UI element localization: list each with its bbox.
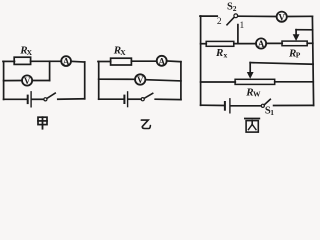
wire: yi bottom row left segment [99, 98, 124, 100]
wire: Rw wiper horizontal [250, 63, 313, 65]
label BING (drawn glyph) [245, 119, 259, 133]
wire: jia top row right segment [71, 60, 85, 63]
switch S1 blade [264, 99, 270, 105]
label RX (jia) [19, 44, 32, 57]
label Rx (bing) [215, 47, 228, 60]
svg-text:P: P [296, 51, 301, 60]
wire: jia top row left segment [3, 60, 15, 62]
wire: bing row3 left segment [201, 81, 236, 83]
wire: right vertical of yi [180, 62, 182, 100]
wire: contact 1 vertical down to row2 [237, 25, 239, 44]
battery (bing) long plate [229, 99, 231, 113]
battery (jia) long plate [30, 92, 32, 107]
svg-text:W: W [253, 90, 261, 99]
resistor RX (jia) box [14, 57, 30, 64]
svg-text:V: V [137, 75, 144, 85]
label JIA (drawn glyph) [38, 117, 47, 129]
label S2 [227, 1, 237, 13]
switch blade (jia) [47, 93, 55, 98]
wire: bing row2 Rp to right vertical [307, 42, 313, 44]
potentiometer Rp box [282, 41, 307, 46]
wire: left vertical of yi [98, 62, 100, 100]
svg-text:R: R [215, 47, 223, 59]
voltmeter V (bing) [277, 12, 287, 22]
label Rw [245, 86, 261, 98]
label RX (yi) [113, 44, 126, 57]
label 2 (contact) [217, 17, 222, 27]
switch pivot (yi) [141, 98, 144, 101]
ammeter A (jia) [61, 56, 71, 66]
ammeter A (bing) [256, 38, 266, 48]
wire: bing bottom row battery to switch [231, 105, 262, 107]
wire: yi middle row left segment [99, 78, 136, 80]
battery (yi) short plate [123, 96, 125, 103]
svg-text:x: x [224, 51, 228, 60]
wire: bing row3 Rw to right vertical [275, 81, 314, 83]
wire: yi middle row right segment [145, 80, 181, 81]
wire: jia bottom row left segment [4, 98, 27, 100]
label Rp [288, 47, 301, 59]
label S1 [265, 105, 274, 116]
wire: jia voltmeter branch right segment [32, 80, 49, 82]
wire: bing row2 ammeter to Rp [266, 42, 282, 44]
battery (jia) short plate [27, 96, 29, 104]
battery (yi) long plate [127, 92, 129, 107]
wire: left vertical of jia [3, 61, 5, 99]
svg-text:2: 2 [233, 4, 237, 13]
wire: yi bottom row right segment [155, 98, 181, 100]
switch blade (yi) [144, 93, 153, 98]
label YI (drawn glyph) [141, 120, 150, 128]
wire: Rp wiper stem [295, 30, 297, 36]
wire: jia voltmeter branch left segment [4, 80, 22, 82]
wire: yi top row between box and ammeter [131, 60, 156, 62]
voltmeter V (jia) [22, 75, 32, 85]
battery (bing) short plate [224, 102, 226, 110]
svg-text:X: X [120, 48, 126, 57]
wire: jia top row between box and ammeter [31, 60, 62, 62]
svg-text:1: 1 [270, 108, 274, 117]
resistor Rx (bing) box [206, 41, 234, 46]
rheostat Rw box [235, 79, 275, 84]
ammeter A (yi) [157, 56, 167, 66]
switch pivot (jia) [44, 98, 47, 101]
wire: right vertical of jia [84, 62, 86, 99]
svg-text:A: A [158, 56, 165, 66]
wire: Rw wiper stem [249, 63, 251, 73]
svg-text:A: A [258, 39, 265, 49]
voltmeter V (yi) [135, 74, 145, 84]
wire: bing row2 box to ammeter [234, 43, 256, 45]
wire: bing top row to contact 2 [200, 15, 217, 17]
wire: jia bottom row right segment [58, 98, 85, 100]
wire: left vertical of bing [200, 16, 202, 105]
wire: yi top row right segment [167, 60, 181, 63]
Rp wiper arrowhead [293, 34, 300, 41]
label 1 (contact) [240, 21, 245, 31]
wire: bing top row voltmeter to right vertical [287, 15, 313, 17]
svg-text:V: V [278, 12, 285, 22]
resistor RX (yi) box [111, 58, 132, 65]
wire: jia bottom row battery to switch [32, 98, 44, 100]
Rw wiper arrowhead [247, 72, 254, 79]
svg-text:A: A [63, 57, 70, 67]
wire: bing top row pivot to voltmeter [238, 15, 277, 17]
wire: bing bottom row right segment [274, 104, 314, 106]
wire: yi top row left segment [98, 61, 111, 63]
switch S1 pivot [261, 104, 264, 107]
wire: yi bottom row battery to switch [128, 98, 141, 100]
wire: bing row2 left segment [201, 43, 207, 45]
switch S2 pivot [234, 14, 238, 18]
wire: jia voltmeter branch vertical up to top row [49, 61, 51, 80]
svg-text:V: V [24, 76, 31, 86]
svg-text:1: 1 [240, 21, 245, 31]
svg-text:X: X [27, 48, 33, 57]
svg-text:2: 2 [217, 17, 222, 27]
wire: right vertical of bing [312, 16, 313, 105]
wire: Rp wiper horizontal [296, 29, 312, 31]
wire: bing bottom row left segment [201, 104, 224, 106]
switch S2 blade [227, 17, 234, 24]
